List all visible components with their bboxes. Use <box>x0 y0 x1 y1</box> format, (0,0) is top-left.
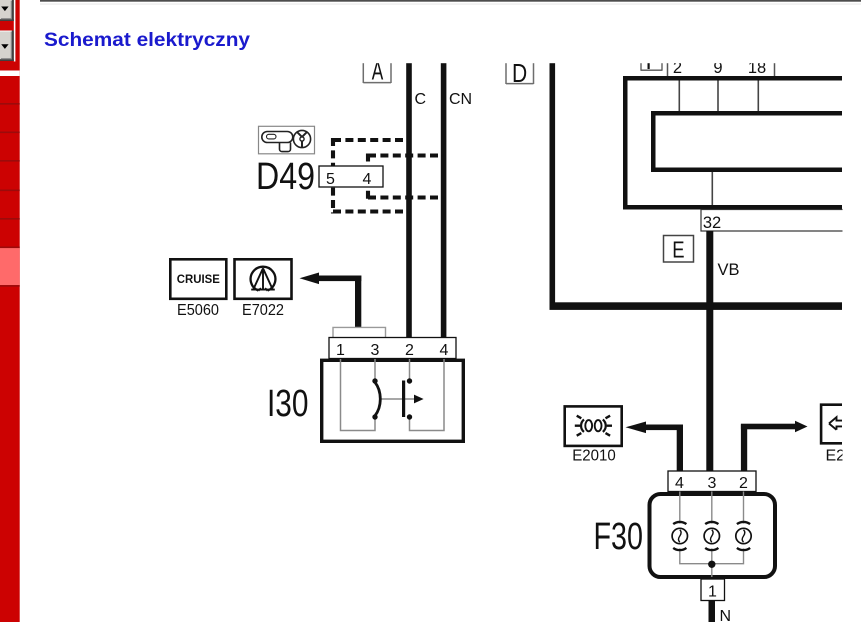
pin 9 <box>713 59 722 77</box>
component E7022 (cruise indicator box) <box>235 259 292 299</box>
svg-text:1: 1 <box>708 584 717 601</box>
component E2xxx (right, clipped) <box>821 405 842 444</box>
label E5060 <box>177 302 219 319</box>
pin 1 stub <box>648 62 650 69</box>
D49 pin box (pins 5,4) <box>319 166 383 188</box>
svg-text:E2010: E2010 <box>572 448 616 465</box>
F30 pin row (4 3 2) <box>668 471 756 492</box>
svg-text:CRUISE: CRUISE <box>177 272 220 286</box>
dropdown button 1 (top-left, cut off) <box>0 0 15 62</box>
section label box E <box>664 236 694 263</box>
dropdown button 2 (cut off) <box>0 31 14 62</box>
svg-text:5: 5 <box>326 171 335 188</box>
svg-text:3: 3 <box>708 475 717 492</box>
F30 internal wires <box>680 492 744 578</box>
label VB <box>718 261 740 279</box>
label I30 <box>267 383 309 425</box>
connector D49 icon box <box>259 126 315 154</box>
component E2010 (parking lamps box) <box>565 406 622 446</box>
I30 internal wiring <box>341 359 445 431</box>
label D49 <box>256 156 315 198</box>
svg-text:4: 4 <box>675 475 684 492</box>
lamp 3 <box>736 522 751 550</box>
section letter D <box>512 58 527 88</box>
lamp 2 <box>704 522 719 550</box>
wire to E2010 with arrow (from F30 pin 4) <box>626 422 684 472</box>
svg-text:C: C <box>415 91 427 108</box>
svg-text:D49: D49 <box>256 156 315 198</box>
svg-text:N: N <box>720 608 732 622</box>
wire C (trunk) <box>406 63 412 338</box>
svg-text:I30: I30 <box>267 383 309 425</box>
svg-text:4: 4 <box>363 171 372 188</box>
svg-text:Schemat elektryczny: Schemat elektryczny <box>44 29 250 51</box>
wire D-trunk to VB rail <box>550 63 843 310</box>
section label box A <box>363 63 391 83</box>
svg-text:32: 32 <box>703 214 721 232</box>
label F30 <box>594 516 644 558</box>
section label box D <box>506 63 534 84</box>
pin 2 <box>673 59 682 77</box>
D49 inner dashed boundary (to wire CN) <box>368 154 444 200</box>
wire to E7022 with arrow <box>300 273 362 328</box>
switch I30 body <box>322 360 464 441</box>
bracket over I30 pins 1,3 <box>333 327 386 337</box>
svg-text:F30: F30 <box>594 516 644 558</box>
svg-text:4: 4 <box>440 342 449 359</box>
svg-text:CN: CN <box>449 91 472 108</box>
red sidebar panel <box>0 0 20 622</box>
label E2010 <box>572 448 616 465</box>
label E7022 <box>242 302 284 319</box>
F30 pin 1 box <box>701 579 725 601</box>
svg-text:2: 2 <box>739 475 748 492</box>
junction node <box>708 561 715 568</box>
wire N (ground feed) <box>709 601 716 622</box>
wire to E2xxx with arrow (from F30 pin 2) <box>741 421 808 471</box>
svg-text:E5060: E5060 <box>177 302 219 319</box>
module internal pin stubs <box>679 81 758 206</box>
pin 18 <box>748 59 766 77</box>
module connector 1 half-box <box>641 62 662 71</box>
label E2xxx (clipped) <box>826 448 855 465</box>
wire CN (trunk) <box>441 63 447 338</box>
svg-text:VB: VB <box>718 261 740 279</box>
pin 32 strip <box>701 210 849 233</box>
I30 pin row (1 3 2 4) <box>329 338 456 360</box>
lamp cluster F30 body <box>650 494 776 577</box>
body computer module outline <box>623 76 842 210</box>
toolbar bottom edge lines <box>40 0 861 5</box>
D49 outer dashed boundary (to wire C) <box>333 138 409 214</box>
label C <box>415 91 427 108</box>
label CN <box>449 91 472 108</box>
svg-text:3: 3 <box>371 342 380 359</box>
svg-text:1: 1 <box>336 342 345 359</box>
svg-text:E7022: E7022 <box>242 302 284 319</box>
wire VB <box>706 231 713 471</box>
svg-text:2: 2 <box>405 342 414 359</box>
label N <box>720 608 732 622</box>
section letter A <box>372 55 384 85</box>
lamp 1 <box>672 522 687 550</box>
module pin row brackets <box>668 62 775 76</box>
title: Schemat elektryczny <box>44 29 250 51</box>
svg-text:E: E <box>672 237 684 263</box>
crop masks (schematic image edges) <box>40 50 861 550</box>
I30 switch contacts <box>372 378 423 419</box>
component E5060 (CRUISE switch box) <box>170 259 226 299</box>
